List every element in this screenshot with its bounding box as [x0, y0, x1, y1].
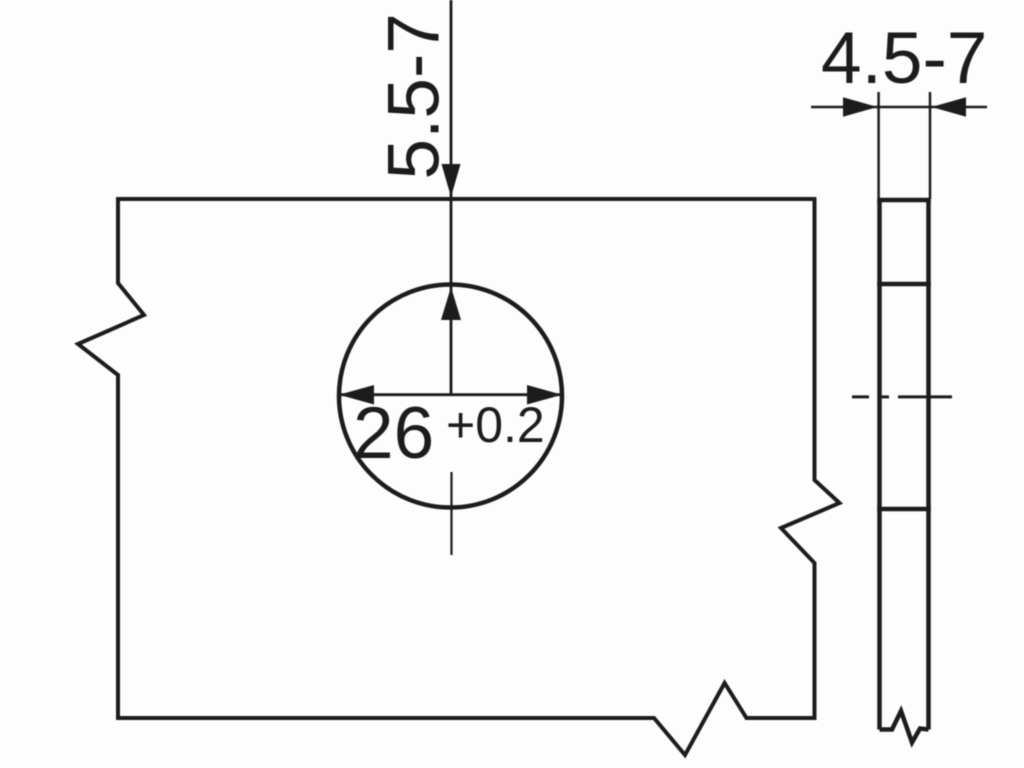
arrowhead right at circle	[527, 385, 562, 405]
svg-text:+0.2: +0.2	[446, 397, 545, 453]
extension line right	[929, 92, 932, 199]
arrowhead up at circle top	[441, 287, 461, 320]
arrowhead right-pointing at left extension	[843, 97, 878, 116]
svg-text:5.5-7: 5.5-7	[374, 13, 455, 179]
side view: door edge right line	[926, 200, 931, 730]
centre line dash right	[898, 395, 952, 398]
dimension line 5.5-7 (vertical)	[450, 0, 453, 395]
diameter dimension line 26	[340, 393, 561, 396]
hole circle 26mm	[339, 285, 562, 508]
arrowhead down at panel top edge	[442, 164, 461, 197]
svg-text:4.5-7: 4.5-7	[821, 18, 987, 99]
side view: top cap	[877, 198, 931, 203]
hole centre line (below circle)	[450, 472, 452, 555]
arrowhead left-pointing at right extension	[932, 97, 967, 116]
centre line dot	[881, 395, 889, 398]
centre line dash	[852, 395, 869, 398]
side view: divider 1	[877, 282, 931, 287]
svg-text:26: 26	[353, 393, 434, 474]
panel outline (front view with break marks)	[78, 199, 840, 755]
side view: divider 2	[877, 507, 931, 512]
side view: door edge left line	[877, 200, 882, 730]
dimension line 4.5-7	[811, 106, 987, 109]
extension line left	[877, 92, 880, 199]
arrowhead left at circle	[339, 385, 374, 405]
side view: bottom edge with break	[880, 711, 929, 743]
